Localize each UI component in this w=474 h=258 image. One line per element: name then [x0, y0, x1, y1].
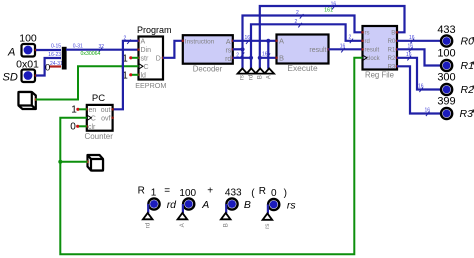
- constant 1 to PC en: [71, 104, 87, 115]
- svg-text:A: A: [279, 37, 284, 46]
- node junction rs: [240, 47, 244, 51]
- svg-text:B: B: [279, 54, 284, 63]
- node junction clock: [58, 160, 62, 164]
- node junction rd: [249, 56, 253, 60]
- label text plus: [207, 185, 213, 196]
- svg-text:Reg File: Reg File: [365, 70, 394, 79]
- svg-text:rs: rs: [365, 30, 370, 36]
- svg-text:rd: rd: [167, 199, 177, 211]
- wire EEPROM D to Decoder: [163, 41, 183, 58]
- svg-text:D: D: [156, 56, 161, 63]
- svg-text:ovf: ovf: [101, 115, 110, 122]
- svg-text:ld: ld: [141, 73, 147, 80]
- svg-text:B: B: [222, 223, 229, 227]
- wire RegFile R3 to pin R3: [397, 66, 440, 116]
- svg-text:2: 2: [124, 35, 127, 41]
- tunnel rd bottom: [143, 213, 153, 229]
- svg-text:R2: R2: [461, 84, 474, 96]
- output pin rd value 1: [148, 188, 177, 211]
- svg-text:A: A: [226, 39, 231, 46]
- svg-text:SD: SD: [3, 72, 18, 84]
- wire clock net from PC C down bottom to RegFile clock: [60, 58, 362, 255]
- svg-text:R0: R0: [461, 36, 474, 48]
- svg-text:B: B: [391, 31, 395, 37]
- svg-text:433: 433: [437, 24, 455, 36]
- svg-text:16: 16: [425, 108, 431, 114]
- constant 1 to EEPROM str: [122, 54, 138, 65]
- svg-text:rd: rd: [225, 56, 231, 63]
- wire pin SD to splitter: [36, 52, 61, 76]
- svg-text:en: en: [89, 107, 97, 114]
- node junction B: [258, 56, 262, 60]
- svg-text:2: 2: [296, 10, 299, 16]
- svg-text:A: A: [201, 199, 209, 211]
- bus wire splitter to EEPROM Din: [66, 44, 139, 57]
- svg-text:100: 100: [437, 48, 455, 60]
- svg-text:R3: R3: [460, 108, 474, 120]
- svg-text:300: 300: [437, 72, 455, 84]
- svg-text:399: 399: [437, 96, 455, 108]
- wire decoder rs to node: [233, 48, 243, 50]
- svg-text:out: out: [101, 107, 111, 114]
- svg-text:result: result: [309, 47, 326, 54]
- svg-text:433: 433: [225, 188, 242, 199]
- svg-text:rd: rd: [248, 74, 255, 80]
- wire junction to button B2: [60, 161, 87, 163]
- output pin R3: [437, 96, 474, 121]
- tunnel B bottom: [221, 213, 231, 228]
- svg-text:): ): [284, 188, 287, 199]
- decoder U2: [182, 35, 235, 73]
- svg-text:2: 2: [295, 19, 298, 25]
- wire pin A to splitter: [36, 44, 61, 50]
- svg-text:0x01: 0x01: [16, 59, 39, 71]
- wire rs net vertical and top run to RegFile rs: [236, 10, 362, 69]
- svg-text:rs: rs: [239, 75, 246, 80]
- svg-text:rs: rs: [287, 200, 296, 212]
- wire decoder rd to node: [233, 57, 251, 59]
- constant 0 to PC clr: [70, 122, 87, 133]
- svg-text:24-31: 24-31: [50, 61, 63, 67]
- svg-text:0-31: 0-31: [73, 44, 83, 50]
- svg-text:0x30064: 0x30064: [81, 51, 101, 57]
- svg-text:100: 100: [19, 33, 37, 45]
- output pin R0: [437, 24, 474, 48]
- svg-text:Program: Program: [137, 25, 172, 35]
- tunnel rs bottom: [263, 213, 273, 229]
- input pin SD: [3, 59, 40, 84]
- svg-text:str: str: [141, 56, 149, 63]
- svg-text:+: +: [207, 185, 213, 196]
- tunnel A bottom: [178, 213, 188, 228]
- svg-text:rd: rd: [144, 222, 151, 228]
- svg-text:1: 1: [151, 188, 157, 199]
- tunnel rd: [247, 68, 257, 80]
- wire decoder A to Execute A: [233, 35, 277, 44]
- output pin rs value 0: [268, 199, 296, 212]
- svg-text:Din: Din: [141, 47, 152, 54]
- wire pin rd to tunnel rd: [147, 204, 149, 213]
- svg-text:A: A: [141, 39, 146, 46]
- svg-text:Instruction: Instruction: [185, 38, 215, 45]
- label text parens R 0: [251, 186, 287, 199]
- svg-text:C: C: [144, 64, 149, 71]
- EEPROM U1 Program: [135, 25, 171, 90]
- wire button B1 to EEPROM C: [36, 64, 139, 100]
- svg-text:rd: rd: [365, 39, 370, 45]
- svg-text:16: 16: [418, 84, 424, 90]
- svg-text:0: 0: [70, 122, 76, 133]
- execute U3: [275, 35, 330, 73]
- label text equals: [164, 185, 170, 196]
- svg-text:=: =: [164, 185, 170, 196]
- tunnel rs: [238, 68, 248, 80]
- wire pin rs to tunnel rs: [267, 205, 269, 214]
- svg-text:161: 161: [324, 7, 333, 13]
- splitter S1: [62, 47, 67, 70]
- svg-text:C: C: [91, 115, 96, 122]
- svg-text:2: 2: [236, 52, 239, 58]
- svg-text:B: B: [244, 199, 251, 211]
- svg-text:1: 1: [71, 104, 77, 115]
- output pin R2: [437, 72, 474, 97]
- wire pin A to tunnel A: [182, 204, 184, 213]
- svg-text:rs: rs: [264, 224, 271, 229]
- constant 1 to EEPROM ld: [122, 71, 138, 82]
- svg-text:R1: R1: [388, 48, 396, 54]
- node junction A: [266, 39, 270, 43]
- svg-text:16: 16: [406, 52, 412, 58]
- wire RegFile R2 to pin R2: [397, 52, 440, 92]
- svg-text:Counter: Counter: [84, 132, 113, 141]
- svg-text:0-15: 0-15: [51, 44, 61, 50]
- wire B net vertical and top run from RegFile B: [260, 1, 405, 68]
- svg-text:16-23: 16-23: [48, 52, 61, 58]
- svg-text:B: B: [257, 75, 264, 79]
- stub 24-31 with value 0: [45, 61, 63, 73]
- wire pin B to tunnel B: [225, 204, 227, 213]
- wire RegFile R1 to pin R1: [397, 44, 440, 66]
- svg-text:16: 16: [408, 44, 414, 50]
- tunnel A: [264, 68, 274, 79]
- wire RegFile R0 to pin R0: [397, 35, 440, 43]
- wire execute result to RegFile result: [329, 43, 363, 52]
- label text R: [138, 185, 145, 196]
- svg-text:16: 16: [409, 35, 415, 41]
- svg-text:result: result: [365, 47, 380, 53]
- svg-text:rs: rs: [225, 47, 231, 54]
- wire B branch to Execute B: [260, 57, 277, 59]
- counter U5 PC: [84, 93, 113, 141]
- output pin A value 100: [179, 188, 209, 211]
- svg-text:2: 2: [349, 35, 352, 41]
- output pin R1: [437, 48, 474, 73]
- svg-text:Execute: Execute: [287, 63, 318, 73]
- svg-text:EEPROM: EEPROM: [135, 81, 166, 90]
- svg-text:R: R: [259, 186, 266, 197]
- svg-text:0: 0: [45, 62, 50, 73]
- button B1: [19, 92, 38, 109]
- wire A net vertical to tunnel: [267, 41, 269, 69]
- output pin B value 433: [225, 188, 251, 211]
- svg-text:PC: PC: [92, 93, 105, 104]
- svg-text:R: R: [138, 185, 145, 196]
- svg-text:R0: R0: [388, 39, 396, 45]
- svg-text:clr: clr: [88, 124, 96, 131]
- svg-text:R2: R2: [388, 56, 396, 62]
- svg-text:clock: clock: [366, 56, 381, 62]
- button B2: [86, 155, 103, 171]
- svg-text:R1: R1: [461, 60, 474, 72]
- input pin A: [7, 33, 37, 59]
- svg-text:A: A: [7, 47, 15, 59]
- wire rd net vertical and run to RegFile rd: [251, 19, 363, 69]
- svg-text:0: 0: [271, 188, 277, 199]
- svg-text:Decoder: Decoder: [193, 65, 223, 74]
- wire PC out to EEPROM A: [113, 35, 139, 109]
- register file U4: [361, 26, 398, 79]
- tunnel B: [255, 68, 265, 79]
